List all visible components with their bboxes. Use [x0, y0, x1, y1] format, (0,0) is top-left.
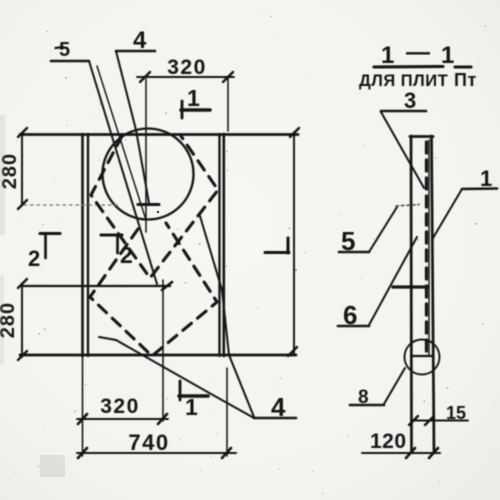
svg-text:1: 1: [187, 85, 200, 111]
plate left edge inner line: [87, 134, 89, 356]
section mark 2 left: [40, 232, 60, 235]
svg-text:15: 15: [446, 403, 466, 423]
dimension 120: [362, 452, 440, 454]
plan view: plate bottom edge: [20, 354, 296, 357]
dimension 280 lower left: [21, 284, 23, 357]
plate right inner line: [218, 134, 220, 356]
svg-text:740: 740: [128, 430, 169, 455]
dimension 320 top: [137, 76, 234, 78]
svg-text:4: 4: [133, 27, 147, 54]
detail circle: [405, 340, 440, 375]
anchor rod dashed upper diamond: [91, 136, 218, 278]
plan view: plate top edge: [20, 133, 298, 136]
overline of Pt: [455, 65, 471, 68]
svg-text:8: 8: [358, 387, 369, 408]
label 1 right leader: [462, 187, 497, 190]
section plate right edge: [432, 136, 435, 452]
plate left edge outer: [81, 134, 84, 356]
letter L rotated: [265, 251, 289, 254]
anchor rod dashed in section: [425, 142, 428, 355]
svg-text:4: 4: [271, 392, 286, 422]
label 4 bottom leaders: [254, 417, 296, 420]
extension line y=286: [22, 285, 170, 287]
svg-text:320: 320: [100, 395, 140, 418]
label 6 leader: [338, 325, 369, 328]
anchor strip bottom: [411, 355, 433, 357]
anchor rod dashed lower diamond: [90, 223, 217, 356]
svg-text:6: 6: [343, 300, 357, 330]
plate right edge outer: [223, 134, 226, 356]
horizontal center line (dotted): [24, 204, 118, 206]
svg-text:1: 1: [381, 42, 394, 69]
svg-text:320: 320: [167, 56, 207, 79]
svg-text:2: 2: [28, 246, 40, 271]
dimension 15: [412, 420, 468, 422]
svg-text:—: —: [406, 39, 430, 66]
center cross tick: [138, 203, 159, 206]
label 5 top leader: [51, 60, 89, 63]
section plate left edge: [410, 136, 413, 452]
weld bar: [393, 285, 428, 288]
dimension L right: [293, 132, 295, 354]
svg-text:3: 3: [404, 88, 416, 113]
svg-text:1: 1: [185, 394, 198, 420]
svg-text:1: 1: [480, 166, 492, 191]
svg-text:1: 1: [441, 42, 454, 69]
dimension 280 upper left: [21, 133, 23, 205]
section mark 1 top: [181, 101, 184, 118]
dimension 320 bottom: [77, 418, 168, 420]
svg-text:Пт: Пт: [454, 70, 477, 90]
ink dots: [157, 211, 160, 214]
dimension 740 bottom: [77, 452, 236, 454]
section mark 1 bottom: [179, 381, 182, 400]
vertical center line of hole: [145, 79, 147, 232]
hole circle: [103, 129, 194, 220]
svg-text:5: 5: [341, 226, 355, 256]
label 3 underline and leader: [381, 110, 426, 113]
svg-text:120: 120: [370, 430, 407, 453]
section mark 2 inner: [101, 233, 122, 236]
section header underline: [374, 65, 443, 69]
label 5 right leader: [339, 251, 369, 254]
label 4 top leader: [116, 50, 155, 53]
svg-text:2: 2: [120, 242, 133, 268]
label 8 leader: [350, 404, 384, 407]
svg-text:5: 5: [59, 39, 70, 61]
section plate top edge: [410, 135, 433, 138]
